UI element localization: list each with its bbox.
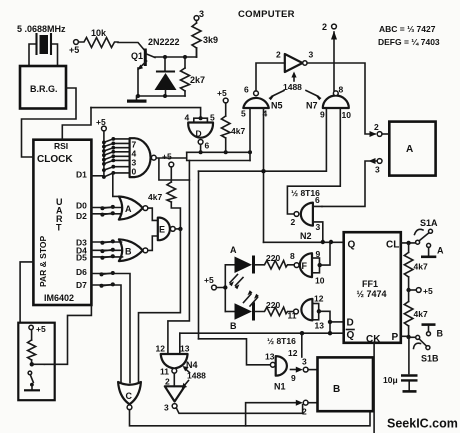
node E output junction — [175, 227, 182, 231]
wire D5 to gate B — [91, 254, 122, 259]
terminal 3 (top) — [194, 9, 204, 20]
wire inverter out to box A pin2 — [307, 63, 375, 134]
buffer N1 (1/2 8T16) — [265, 333, 307, 391]
wire top net to gate D input — [91, 108, 201, 119]
buffer F (1/2 8T16) — [290, 242, 330, 286]
wire gate B out to gate E in2 — [148, 236, 158, 250]
wire D3 to gate B — [91, 239, 121, 244]
wire E output staircase to gate C input3 — [139, 229, 181, 383]
opto LED B — [225, 290, 259, 331]
svg-text:Q1: Q1 — [131, 51, 143, 61]
wire D4 to gate B — [91, 248, 122, 253]
svg-text:E: E — [159, 225, 165, 235]
wire N7.10 down to N2 input — [287, 108, 340, 214]
svg-text:IM6402: IM6402 — [44, 293, 74, 303]
svg-text:B: B — [125, 247, 132, 257]
wire collector node — [155, 56, 197, 58]
svg-text:0: 0 — [132, 167, 137, 177]
terminal 2 (bottom) to box B — [296, 400, 318, 417]
resistor 10k — [79, 28, 119, 48]
svg-text:6: 6 — [315, 195, 320, 205]
wire Qbar net (E/G/Q/D tie) — [180, 331, 344, 335]
svg-text:6: 6 — [244, 85, 249, 95]
svg-text:+5: +5 — [423, 286, 433, 296]
nor gate C (1/3 7427, pointing down) — [118, 382, 141, 410]
svg-text:8: 8 — [339, 85, 344, 95]
wire D2 to gate A — [91, 211, 121, 216]
svg-text:D0: D0 — [76, 201, 87, 211]
wire D0 to gate A — [91, 205, 121, 210]
svg-text:PAR & STOP: PAR & STOP — [38, 236, 48, 287]
svg-text:3: 3 — [302, 357, 307, 367]
svg-text:S1A: S1A — [420, 218, 438, 228]
svg-text:P: P — [392, 332, 399, 343]
svg-text:N1: N1 — [274, 382, 286, 392]
+5 terminal mid divider — [406, 286, 433, 296]
svg-text:ABC = ⅓ 7427: ABC = ⅓ 7427 — [379, 24, 436, 34]
capacitor 10u — [383, 337, 418, 391]
svg-text:8: 8 — [290, 251, 295, 261]
svg-text:+5: +5 — [162, 152, 172, 162]
svg-text:A: A — [125, 204, 132, 214]
svg-text:12: 12 — [156, 344, 166, 354]
strap ladder D1..D8 to 7430 inputs — [102, 137, 130, 179]
wire D6 down to gate C — [91, 274, 130, 383]
svg-text:D5: D5 — [76, 253, 87, 263]
wire emitter-diode-2k7 bottom — [138, 95, 185, 97]
svg-text:C: C — [126, 391, 133, 401]
inverter (1488) pins 2-3 — [276, 50, 314, 73]
svg-text:B: B — [230, 321, 237, 331]
wire terminal3 loop to terminal2 node — [176, 405, 302, 414]
svg-text:CL: CL — [386, 240, 399, 251]
wire D7 down to gate C — [91, 285, 121, 383]
svg-text:+5: +5 — [36, 324, 46, 334]
wire CK stub down — [373, 343, 375, 433]
wire N5.5 net down to N4.12 — [168, 161, 190, 355]
svg-text:Q: Q — [347, 330, 355, 341]
svg-text:½ 7474: ½ 7474 — [357, 289, 387, 299]
svg-text:3: 3 — [164, 403, 169, 413]
node gate D output net to N5 pin5 — [187, 150, 252, 154]
+5 terminal at 4k7 pull-up (E output) — [162, 152, 174, 167]
svg-text:2: 2 — [276, 50, 281, 60]
svg-text:D: D — [196, 129, 202, 139]
svg-text:2: 2 — [302, 407, 307, 417]
svg-text:A: A — [406, 144, 413, 155]
svg-text:2: 2 — [374, 122, 379, 132]
wire FF1 Q to N5.4 net — [264, 240, 344, 244]
svg-text:2: 2 — [291, 217, 296, 227]
svg-text:10: 10 — [342, 110, 352, 120]
wire PAR&STOP to select box — [20, 262, 33, 323]
svg-text:9: 9 — [320, 110, 325, 120]
UART IM6402 box — [33, 140, 91, 305]
wire 7430 output to N5 net — [156, 158, 189, 180]
contact B of S1B — [422, 325, 444, 339]
diode D1 (protection) — [155, 55, 177, 98]
svg-text:Q: Q — [348, 240, 356, 251]
svg-text:13: 13 — [180, 344, 190, 354]
switch S1A — [415, 218, 439, 244]
contact A of S1A — [421, 243, 444, 256]
svg-text:S1B: S1B — [421, 354, 439, 364]
wire RSI from top net — [62, 108, 91, 140]
opto LED A — [225, 245, 253, 289]
wire rail up to terminal 2 — [246, 403, 297, 426]
nand gate D (1/4 7403, inputs bracket) — [185, 113, 216, 153]
svg-text:5: 5 — [241, 109, 246, 119]
switch S1B — [411, 335, 439, 363]
svg-text:10μ: 10μ — [383, 375, 398, 385]
resistor 4k7 (N5 input pull-up) — [221, 103, 245, 152]
nor gate N7 (1488) — [306, 85, 351, 121]
svg-text:N4: N4 — [186, 360, 198, 370]
svg-text:B.R.G.: B.R.G. — [30, 84, 58, 94]
crystal Y1 5.0688MHz — [17, 24, 66, 66]
svg-text:½ 8T16: ½ 8T16 — [267, 336, 296, 346]
box A pin2 terminal — [370, 122, 390, 137]
svg-text:2: 2 — [322, 22, 327, 32]
svg-text:4k7: 4k7 — [414, 309, 428, 319]
svg-text:11: 11 — [160, 367, 169, 377]
svg-text:10: 10 — [315, 276, 325, 286]
wire D1 to ladder — [91, 175, 104, 177]
+5 terminal at 4k7 pull-up (N5 input) — [217, 88, 228, 103]
svg-text:4: 4 — [185, 113, 190, 123]
svg-text:3k9: 3k9 — [203, 35, 218, 45]
svg-text:RSI: RSI — [54, 141, 68, 151]
svg-text:COMPUTER: COMPUTER — [238, 9, 295, 20]
svg-text:4k7: 4k7 — [231, 126, 245, 136]
svg-text:B: B — [437, 329, 444, 339]
svg-text:T: T — [56, 223, 62, 233]
svg-text:4k7: 4k7 — [148, 192, 162, 202]
+5 terminal at 10k — [69, 40, 79, 55]
B.R.G. box — [20, 66, 66, 109]
wire B.R.G. to CLOCK — [22, 88, 77, 157]
nor gate B (1/3 7427) — [119, 239, 148, 261]
wire select box to UART bottom — [44, 306, 91, 364]
parity select box — [18, 323, 54, 401]
svg-text:10k: 10k — [91, 28, 107, 38]
svg-text:5 .0688MHz: 5 .0688MHz — [17, 24, 66, 34]
+5 terminal at optocouplers — [204, 265, 228, 312]
svg-text:2N2222: 2N2222 — [148, 37, 180, 47]
wire gate C out to bottom rail — [130, 410, 371, 426]
nor gate N4 (1488) — [156, 344, 198, 387]
resistor 2k7 — [181, 55, 206, 96]
svg-text:A: A — [437, 246, 444, 256]
terminal 2 (top) with arrow from N7 — [322, 22, 337, 91]
wire N5 pin4 stub down to U-wire and Q net — [263, 108, 265, 242]
wire D node to FF1 — [328, 320, 344, 334]
svg-text:4k7: 4k7 — [414, 262, 428, 272]
svg-text:D7: D7 — [76, 280, 87, 290]
resistor 220 (B) — [255, 300, 294, 316]
svg-text:CLOCK: CLOCK — [37, 154, 73, 165]
terminal 3 (N1 out) to box B — [296, 367, 318, 373]
wire N5.5 lower tie — [187, 152, 250, 160]
svg-text:F: F — [302, 261, 308, 271]
ground at Q1 emitter — [127, 94, 147, 103]
svg-text:11: 11 — [288, 311, 297, 321]
wire 10k to Q1 base — [118, 43, 146, 53]
inverter (1488) to terminal 3 — [164, 386, 185, 412]
label 1488 with arrows — [269, 72, 322, 101]
svg-text:D: D — [347, 318, 354, 329]
nand gate E (1/4 7403) — [158, 218, 175, 241]
svg-text:2k7: 2k7 — [190, 75, 205, 85]
svg-text:D6: D6 — [76, 267, 87, 277]
svg-text:12: 12 — [288, 348, 298, 358]
svg-text:12: 12 — [314, 294, 324, 304]
flip-flop FF1 1/2 7474 — [344, 232, 401, 345]
svg-text:B: B — [333, 384, 340, 395]
computer box A — [389, 122, 435, 176]
svg-text:9: 9 — [316, 249, 321, 259]
nor gate N5 (1488) — [241, 85, 283, 119]
svg-text:+5: +5 — [217, 88, 227, 98]
wire CL node / S1A — [401, 241, 416, 245]
svg-text:DEFG = ¼ 7403: DEFG = ¼ 7403 — [378, 37, 440, 47]
buffer G (1/2 8T16) — [288, 294, 331, 331]
wire U-net to N4.13 and N1.13 — [180, 333, 270, 365]
svg-text:9: 9 — [291, 373, 296, 383]
svg-text:5: 5 — [210, 113, 215, 123]
svg-text:1488: 1488 — [283, 82, 302, 92]
svg-text:SeekIC.com: SeekIC.com — [387, 417, 458, 431]
transistor Q1 2N2222 — [131, 37, 180, 96]
wire gate A out to gate E in1 — [148, 208, 158, 220]
svg-text:3: 3 — [375, 165, 380, 175]
buffer N2 (1/2 8T16) — [291, 195, 323, 242]
svg-text:2: 2 — [165, 377, 170, 387]
computer box B — [318, 357, 374, 411]
resistor 4k7 (CL pull-up) — [404, 243, 428, 290]
svg-text:N7: N7 — [306, 101, 318, 111]
svg-text:A: A — [230, 245, 237, 255]
wire N5 out up to inverter input — [256, 63, 285, 91]
svg-text:13: 13 — [315, 321, 325, 331]
svg-text:3: 3 — [199, 9, 204, 19]
svg-text:N5: N5 — [271, 101, 283, 111]
svg-text:+5: +5 — [204, 275, 214, 285]
+5 pull-up terminal at 7430 ladder — [96, 117, 106, 177]
svg-text:3: 3 — [316, 222, 321, 232]
svg-text:N2: N2 — [300, 231, 312, 241]
nor gate A (1/3 7427) — [119, 197, 148, 220]
svg-text:3: 3 — [309, 50, 314, 60]
svg-text:13: 13 — [265, 352, 275, 362]
svg-text:FF1: FF1 — [362, 279, 378, 289]
U-wire N5.4 to N7.9 — [199, 108, 327, 173]
wire D1-strap third input to gate A — [113, 173, 121, 196]
svg-text:+5: +5 — [69, 45, 79, 55]
resistor 4k7 (E output pull-up) — [148, 167, 180, 229]
nand gate 7430 — [130, 138, 157, 177]
wire U-net down to N4/N1 branch — [198, 171, 200, 339]
resistor 4k7 (P pull-up) — [404, 290, 428, 338]
wire N5 pin5 stub — [249, 108, 251, 161]
svg-text:D1: D1 — [76, 170, 87, 180]
resistor 3k9 — [192, 21, 218, 58]
wire P node — [401, 335, 411, 339]
svg-text:6: 6 — [205, 141, 210, 151]
label 1488 with arrows (N4/inverter) — [182, 366, 206, 389]
svg-text:D2: D2 — [76, 211, 87, 221]
wire 3k9 bottom to collector node — [196, 48, 198, 57]
box A pin3 terminal — [322, 158, 382, 206]
resistor 220 (A) — [255, 253, 294, 269]
wire N4 out to inverter 2 — [173, 373, 175, 386]
